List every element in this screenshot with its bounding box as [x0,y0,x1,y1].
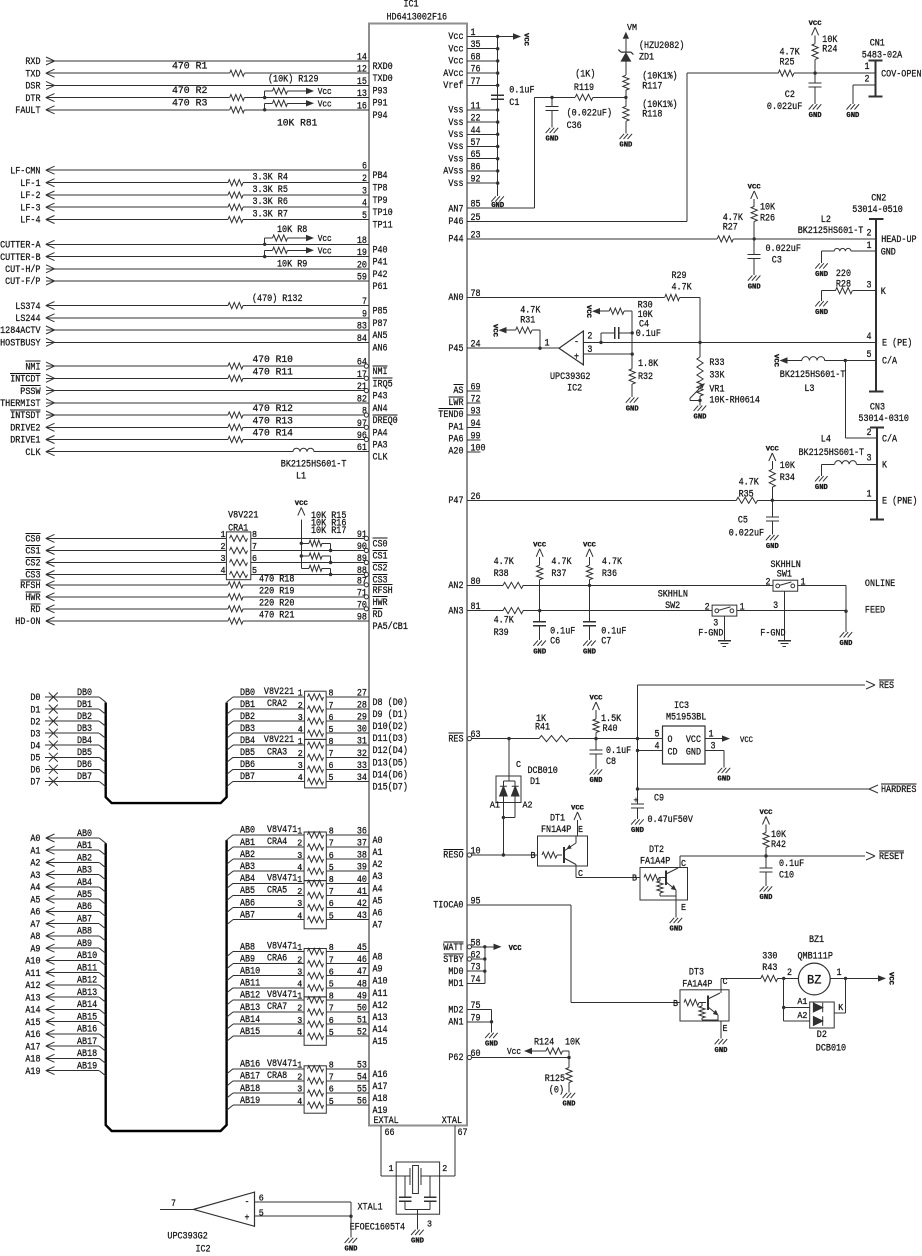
svg-text:10K: 10K [780,461,795,472]
svg-text:Vcc: Vcc [318,234,332,244]
svg-text:IRQ5: IRQ5 [373,379,393,390]
svg-text:PA1: PA1 [448,422,463,433]
wire DB5 right of bus [227,757,233,762]
svg-text:VM: VM [627,23,637,33]
svg-text:72: 72 [471,395,481,406]
svg-text:34: 34 [357,773,367,784]
svg-text:A11: A11 [373,989,388,1000]
svg-text:A1: A1 [797,997,807,1007]
wire AN7 riser [534,97,536,208]
CRA2 resistor row [308,706,324,712]
svg-text:52: 52 [357,1028,367,1039]
svg-text:V8V471: V8V471 [267,873,297,884]
wire AB13 right of bus [227,1012,233,1017]
svg-text:DRIVE2: DRIVE2 [10,424,40,435]
svg-text:R38: R38 [494,569,509,580]
svg-text:A1: A1 [373,848,383,859]
svg-text:DT2: DT2 [649,845,664,856]
wire DT3 collector to R43 [721,977,761,979]
svg-text:AB11: AB11 [240,979,260,990]
svg-text:VCC: VCC [523,33,530,46]
svg-text:LF-4: LF-4 [20,216,40,227]
svg-text:4: 4 [297,1028,302,1038]
svg-text:D1: D1 [530,777,540,788]
svg-text:RFSH: RFSH [373,586,393,597]
network resistor row AB6 [308,904,324,910]
svg-text:47: 47 [357,967,367,978]
network resistor row AB7 [308,917,324,923]
wire C/A down to CN3 [844,361,846,439]
svg-text:4: 4 [298,725,303,735]
svg-text:98: 98 [357,613,367,624]
svg-text:AB19: AB19 [240,1096,260,1107]
svg-text:40: 40 [357,875,367,886]
resistor R30 10K feedback [624,310,632,312]
svg-text:2: 2 [221,542,226,552]
svg-text:DB1: DB1 [77,700,92,711]
svg-text:+: + [245,1214,250,1225]
svg-text:A8: A8 [30,932,40,943]
wire AB11 right of bus [227,988,233,993]
svg-text:AB10: AB10 [240,967,260,978]
svg-text:1: 1 [837,968,842,979]
wire D2 K to node1 [834,1012,845,1014]
svg-text:4.7K: 4.7K [494,615,514,626]
svg-text:PSSW: PSSW [20,387,40,398]
DT3 internal resistor [701,1003,703,1006]
junction [496,84,499,87]
svg-text:Vss: Vss [448,142,463,153]
svg-text:D12(D4): D12(D4) [373,745,408,757]
svg-text:P91: P91 [373,99,388,110]
CRA1 resistor row 2-7 [230,547,248,553]
svg-text:1: 1 [865,62,870,73]
network resistor row AB12 [308,997,324,1003]
svg-text:VCC: VCC [773,354,780,367]
wire DB0 right of bus [227,697,233,702]
junction [496,133,499,136]
CRA3 resistor row [308,778,324,784]
wire AB10 right of bus [227,976,233,981]
resistor R6 3.3K [228,204,243,210]
svg-text:AN4: AN4 [373,404,388,415]
svg-text:DB6: DB6 [240,760,255,771]
svg-text:WATT: WATT [443,943,463,954]
junction R117 R118 node [624,96,627,99]
svg-text:GND: GND [533,648,546,656]
svg-text:18: 18 [357,236,367,247]
svg-text:3: 3 [867,453,872,464]
svg-text:10: 10 [471,847,481,858]
svg-text:A11: A11 [25,969,40,980]
svg-text:68: 68 [471,52,481,63]
svg-text:R40: R40 [603,724,618,735]
DT2 emitter to ground [675,890,677,918]
resistor R19 220 [228,594,243,600]
svg-text:3: 3 [221,554,226,564]
svg-text:A16: A16 [373,1070,388,1081]
svg-text:DB5: DB5 [240,748,255,759]
svg-text:FA1A4P: FA1A4P [640,856,670,867]
svg-text:TEND0: TEND0 [438,410,463,421]
svg-text:C6: C6 [550,637,560,648]
svg-text:A1: A1 [30,846,40,857]
svg-text:HARDRES: HARDRES [881,785,916,796]
svg-text:PA3: PA3 [373,441,388,452]
svg-text:D0: D0 [30,693,40,704]
capacitor C1 0.1uF [491,94,504,96]
capacitor C6 0.1uF [539,611,541,622]
svg-text:V8V221: V8V221 [264,687,294,698]
svg-text:3.3K R5: 3.3K R5 [253,185,288,196]
svg-text:470 R13: 470 R13 [253,416,293,427]
resistor R17 pull-up CS3 [301,567,309,569]
svg-text:E: E [723,1024,728,1034]
svg-text:A2: A2 [523,800,533,810]
wire AB15 right of bus [227,1036,233,1041]
resistor R29 4.7K [665,294,680,300]
svg-text:A15: A15 [373,1037,388,1048]
ground below VR1 [694,406,699,411]
CRA2 resistor row [308,730,324,736]
svg-text:Vcc: Vcc [318,247,332,257]
svg-text:2: 2 [865,74,870,85]
svg-text:45: 45 [357,943,367,954]
svg-text:0.022uF: 0.022uF [767,102,802,113]
svg-text:AVcc: AVcc [443,69,463,80]
svg-text:GND: GND [815,309,828,317]
svg-text:CUT-H/P: CUT-H/P [5,264,40,276]
junction C/A node [844,359,847,362]
wire AB4 right of bus [227,883,233,888]
junction [496,181,499,184]
svg-text:VCC: VCC [809,20,822,27]
svg-text:BK2125HS601-T: BK2125HS601-T [799,448,865,459]
svg-text:A10: A10 [373,977,388,988]
svg-text:V8V471: V8V471 [267,1059,297,1070]
wire P46 riser [686,73,688,221]
svg-text:0.1uF: 0.1uF [606,746,631,757]
resistor R42 10K pull-up [765,848,767,857]
svg-text:P87: P87 [373,319,388,330]
svg-text:DCB010: DCB010 [528,766,558,777]
svg-text:A13: A13 [373,1013,388,1024]
ground below C8 [590,769,595,774]
svg-text:E (PNE): E (PNE) [882,496,917,508]
svg-text:STBY: STBY [443,955,463,966]
svg-text:D2: D2 [30,717,40,728]
svg-text:GND: GND [546,136,559,144]
svg-text:10K R81: 10K R81 [277,119,317,130]
svg-text:0.022uF: 0.022uF [766,244,801,255]
svg-text:0.1uF: 0.1uF [509,86,534,97]
svg-text:3.3K R4: 3.3K R4 [253,173,288,184]
svg-text:EXTAL: EXTAL [374,1116,399,1127]
svg-text:V8V471: V8V471 [267,990,297,1001]
svg-text:AB16: AB16 [240,1060,260,1071]
svg-text:K: K [838,1003,844,1013]
svg-text:3: 3 [298,713,303,723]
svg-text:GND: GND [815,271,828,279]
svg-text:AB8: AB8 [77,927,92,938]
svg-text:O: O [668,735,673,746]
svg-text:QMB111P: QMB111P [798,952,833,963]
svg-text:R124: R124 [534,1038,554,1049]
junction HARDRES [636,787,639,790]
wire RESET [680,855,865,857]
svg-text:GND: GND [718,776,731,784]
svg-text:COV-OPEN: COV-OPEN [881,69,921,80]
wire AB9 right of bus [227,964,233,969]
svg-text:LS244: LS244 [15,314,40,325]
svg-text:25: 25 [471,213,481,224]
junction feedback tap [599,341,602,344]
wire AB6 right of bus [227,908,233,913]
svg-text:Vcc: Vcc [448,32,463,43]
svg-text:L2: L2 [821,215,831,226]
junction buzzer node 1 [830,977,880,979]
svg-text:L4: L4 [821,434,831,445]
wire crystal common [405,1208,430,1210]
svg-text:AN7: AN7 [448,204,463,215]
svg-text:R28: R28 [836,279,851,290]
svg-text:33K: 33K [709,370,724,381]
svg-text:A6: A6 [373,909,383,920]
svg-text:RXD: RXD [25,57,40,68]
svg-text:GND: GND [619,142,632,150]
svg-text:30: 30 [357,725,367,736]
svg-text:VCC: VCC [686,735,701,746]
ground below spare comparator [345,1238,350,1243]
svg-text:B: B [632,874,638,884]
network resistor row AB5 [308,892,324,898]
signal RESET arrow [866,852,875,856]
svg-text:IC1: IC1 [403,0,418,11]
svg-text:1: 1 [471,28,476,39]
svg-text:A6: A6 [30,908,40,919]
resistor R32 1.8K [631,354,633,369]
svg-text:32: 32 [357,749,367,760]
svg-text:DB3: DB3 [77,724,92,735]
svg-text:P40: P40 [373,245,388,256]
svg-text:A10: A10 [25,957,40,968]
resistor R31 4.7K pull-up [539,330,541,348]
svg-text:RD: RD [373,610,383,621]
svg-text:DRIVE1: DRIVE1 [10,436,40,447]
svg-text:CD: CD [668,747,678,758]
svg-text:AN2: AN2 [448,581,463,592]
svg-text:2: 2 [587,332,592,343]
network resistor row AB2 [308,856,324,862]
svg-text:R34: R34 [780,473,795,484]
resistor R7 3.3K [228,216,243,222]
svg-text:V8V221: V8V221 [264,735,294,746]
svg-text:1284ACTV: 1284ACTV [0,326,40,337]
junction D1 tap [507,737,510,740]
op-amp IC2 UPC393G2 triangle [540,347,559,349]
svg-text:26: 26 [471,492,481,503]
junction C36 node [550,96,553,99]
svg-text:AB17: AB17 [77,1037,97,1048]
junction [496,59,499,62]
svg-text:VCC: VCC [748,183,761,190]
svg-text:83: 83 [357,322,367,333]
svg-text:470 R21: 470 R21 [259,611,294,622]
svg-text:470 R3: 470 R3 [172,98,207,109]
resistor network CRA7 box [304,997,326,1045]
svg-text:DB1: DB1 [240,700,255,711]
svg-text:76: 76 [471,65,481,76]
svg-text:86: 86 [471,162,481,173]
load capacitor left [404,1176,406,1197]
svg-text:HD6413002F16: HD6413002F16 [387,13,448,24]
wire to CN1 [794,72,875,74]
svg-text:59: 59 [357,273,367,284]
svg-text:BZ1: BZ1 [809,935,824,946]
svg-text:TP10: TP10 [373,208,393,219]
svg-text:V8V471: V8V471 [267,942,297,953]
svg-text:RES: RES [448,734,463,745]
svg-text:AN5: AN5 [373,331,388,342]
junction [496,71,499,74]
network resistor row AB8 [308,948,324,954]
svg-text:HWR: HWR [373,598,388,609]
ground below C6 [533,641,538,646]
wire DB7 right of bus [227,781,233,786]
svg-text:1: 1 [297,943,302,953]
svg-text:AB18: AB18 [240,1084,260,1095]
svg-text:AB8: AB8 [240,942,255,953]
svg-text:C9: C9 [654,794,664,805]
resistor R132 (470) [228,303,243,309]
svg-text:CS1: CS1 [373,552,388,563]
svg-text:3: 3 [298,761,303,771]
CRA3 resistor row [308,754,324,760]
svg-text:95: 95 [471,897,481,908]
svg-text:GND: GND [485,1041,498,1049]
svg-text:Vss: Vss [448,106,463,117]
svg-text:73: 73 [471,963,481,974]
svg-text:R35: R35 [739,489,754,500]
svg-text:12: 12 [357,65,367,76]
wire EXTAL [380,1125,382,1176]
svg-text:470 R1: 470 R1 [172,62,207,73]
svg-text:RESO: RESO [443,851,463,862]
svg-text:7: 7 [171,1199,176,1210]
capacitor C8 0.1uF [595,739,597,750]
svg-text:R37: R37 [551,569,566,580]
svg-text:A14: A14 [25,1006,40,1017]
network resistor row AB9 [308,961,324,967]
svg-text:4: 4 [297,863,302,873]
svg-text:2: 2 [766,578,771,589]
svg-text:F-GND: F-GND [760,629,785,640]
svg-text:10K R8: 10K R8 [277,225,307,236]
DT1 emitter to Vcc [575,836,577,843]
svg-text:EFOEC1605T4: EFOEC1605T4 [350,1223,406,1234]
svg-text:220: 220 [836,269,851,280]
svg-text:FAULT: FAULT [15,106,40,117]
svg-text:3.3K R6: 3.3K R6 [253,197,288,208]
svg-text:A4: A4 [373,884,383,895]
svg-text:P45: P45 [448,344,463,355]
wire HARDRES riser [637,739,639,804]
svg-text:AB18: AB18 [77,1049,97,1060]
svg-text:330: 330 [762,952,777,963]
svg-text:A14: A14 [373,1025,388,1036]
svg-text:56: 56 [357,1097,367,1108]
svg-text:HWR: HWR [25,593,40,604]
junction R42 C10 [764,854,767,857]
svg-text:DB7: DB7 [240,772,255,783]
svg-text:R119: R119 [574,83,594,94]
wire AB3 right of bus [227,871,233,876]
svg-text:GND: GND [881,247,896,258]
svg-text:R41: R41 [535,723,550,734]
svg-text:D5: D5 [30,754,40,765]
ground below R28 [821,291,823,301]
network resistor row AB18 [308,1090,324,1096]
svg-text:AB4: AB4 [77,878,92,889]
junction buzzer node 2 [778,977,799,979]
svg-text:0.1uF: 0.1uF [636,329,661,340]
svg-text:42: 42 [357,899,367,910]
svg-text:3: 3 [297,851,302,861]
capacitor C3 0.022uF [753,239,755,255]
resistor R12 470 [228,412,243,418]
wire to IC3 [596,738,638,740]
svg-text:TP8: TP8 [373,184,388,195]
svg-text:PA6: PA6 [448,435,463,446]
svg-text:11: 11 [471,101,481,112]
resistor R81 10K pull-up to Vcc on FAULT [263,108,266,111]
svg-text:MD0: MD0 [448,967,463,978]
ground below L2 [821,251,823,263]
svg-text:FN1A4P: FN1A4P [541,825,571,836]
wire pin6 [255,1201,352,1203]
svg-text:AB2: AB2 [77,853,92,864]
svg-text:BK2125HS601-T: BK2125HS601-T [281,460,347,471]
svg-text:DB2: DB2 [240,712,255,723]
svg-text:220 R19: 220 R19 [259,586,294,597]
svg-text:HD-ON: HD-ON [15,617,40,628]
svg-text:R39: R39 [494,628,509,639]
wire TIOCA0 down [570,905,572,1003]
resistor R125 (0) to ground [568,1058,570,1068]
svg-text:53014-0510: 53014-0510 [852,205,903,216]
network resistor row AB14 [308,1021,324,1027]
svg-text:R29: R29 [672,271,687,282]
svg-text:84: 84 [357,334,367,345]
svg-text:ZD1: ZD1 [639,53,654,64]
svg-text:A2: A2 [373,860,383,871]
svg-text:DB6: DB6 [77,760,92,771]
svg-text:CUT-F/P: CUT-F/P [5,276,40,288]
svg-text:67: 67 [458,1128,468,1139]
svg-text:P46: P46 [448,217,463,228]
svg-text:C36: C36 [567,121,582,132]
svg-text:0.022uF: 0.022uF [729,529,764,540]
resistor R1 470 [230,70,245,76]
svg-text:A2: A2 [30,859,40,870]
svg-text:13: 13 [357,89,367,100]
network resistor row AB4 [308,880,324,886]
wire R29 to corner [680,297,700,299]
svg-text:5: 5 [655,730,660,741]
svg-text:VCC: VCC [585,305,592,318]
svg-text:P47: P47 [448,496,463,507]
svg-text:DT3: DT3 [689,968,704,979]
